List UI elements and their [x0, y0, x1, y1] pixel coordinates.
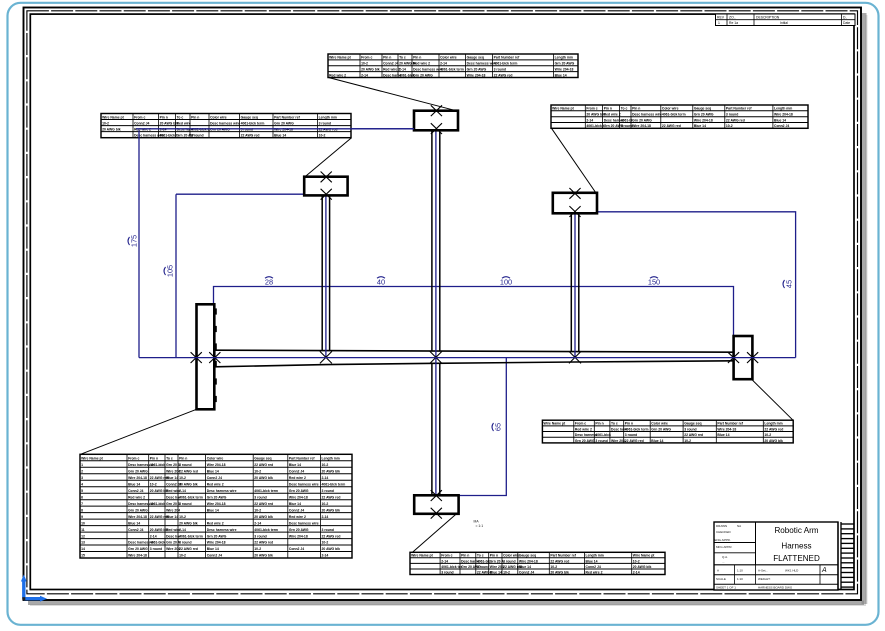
leader left table to C2: [305, 138, 352, 177]
svg-text:4061-blck t: 4061-blck t: [160, 134, 178, 138]
svg-text:WEIGHT:: WEIGHT:: [758, 577, 771, 581]
svg-text:Wire 204-18: Wire 204-18: [632, 124, 651, 128]
svg-text:3 round: 3 round: [595, 439, 607, 443]
svg-text:2-14: 2-14: [179, 489, 186, 493]
svg-text:Color wire: Color wire: [651, 422, 668, 426]
svg-text:Wire 204: Wire 204: [166, 547, 180, 551]
svg-text:22 AWG red: 22 AWG red: [662, 124, 681, 128]
svg-text:Part Number ref: Part Number ref: [289, 457, 315, 461]
svg-text:Wire Name pt: Wire Name pt: [411, 554, 434, 558]
svg-text:175: 175: [130, 235, 139, 247]
svg-text:4061-bl: 4061-bl: [621, 118, 633, 122]
svg-text:MA: MA: [474, 520, 480, 524]
svg-text:4061-blck: 4061-blck: [150, 463, 166, 467]
svg-text:...: ...: [722, 560, 725, 564]
svg-text:10: 10: [81, 521, 85, 525]
svg-text:Blue 14: Blue 14: [717, 433, 729, 437]
svg-text:Blue 14: Blue 14: [274, 134, 286, 138]
svg-text:Gauge seq: Gauge seq: [684, 422, 701, 426]
svg-text:3 round: 3 round: [179, 541, 191, 545]
svg-text:Red wire 2: Red wire 2: [413, 62, 430, 66]
svg-text:Color wire: Color wire: [503, 554, 520, 558]
svg-text:4061-blck term: 4061-blck term: [179, 534, 203, 538]
svg-text:1:10: 1:10: [737, 569, 743, 573]
svg-text:Desc harness wire: Desc harness wire: [467, 62, 497, 66]
svg-text:ZO..: ZO..: [729, 15, 736, 19]
dimension 175 leader over table: [136, 129, 414, 139]
svg-text:3 round: 3 round: [494, 68, 506, 72]
svg-text:Grn 20 AWG: Grn 20 AWG: [467, 68, 487, 72]
svg-text:= 1:1: = 1:1: [476, 524, 484, 528]
svg-text:Length mm: Length mm: [319, 115, 337, 119]
svg-text:10-2: 10-2: [633, 559, 640, 563]
svg-text:Red wire 2: Red wire 2: [289, 515, 306, 519]
svg-text:Pin n: Pin n: [461, 554, 469, 558]
svg-text:From c: From c: [575, 422, 586, 426]
svg-text:6: 6: [81, 495, 83, 499]
table wirelist bottom: [410, 552, 665, 574]
svg-text:22 AWG red: 22 AWG red: [254, 502, 273, 506]
svg-text:Blue 14: Blue 14: [207, 508, 219, 512]
svg-text:DESCRIPTION: DESCRIPTION: [756, 15, 780, 19]
svg-text:2-14: 2-14: [322, 515, 329, 519]
svg-text:Color wire: Color wire: [210, 115, 227, 119]
svg-text:Wire 204: Wire 204: [166, 508, 180, 512]
connector C1: [414, 105, 458, 134]
svg-text:4061-blck term: 4061-blck term: [322, 482, 346, 486]
svg-text:4061-blck term: 4061-blck term: [440, 68, 464, 72]
svg-text:Robotic Arm: Robotic Arm: [774, 526, 818, 535]
svg-text:Blue 14: Blue 14: [166, 476, 178, 480]
leader right connector to mid table: [752, 379, 794, 420]
svg-text:4061-blck term: 4061-blck term: [241, 121, 265, 125]
svg-text:Wire Name pt: Wire Name pt: [633, 554, 656, 558]
svg-text:1: 1: [718, 21, 720, 25]
svg-text:Wire Name pt: Wire Name pt: [81, 457, 104, 461]
svg-text:10-2: 10-2: [179, 515, 186, 519]
svg-text:Desc harness wire: Desc harness wire: [632, 113, 662, 117]
svg-text:To c: To c: [611, 422, 618, 426]
svg-text:3 round: 3 round: [625, 433, 637, 437]
svg-text:From c: From c: [586, 107, 597, 111]
svg-text:3 round: 3 round: [503, 559, 515, 563]
svg-text:10-2: 10-2: [319, 134, 326, 138]
svg-text:Blue 14: Blue 14: [490, 570, 502, 574]
svg-text:Conn2 J4: Conn2 J4: [383, 62, 398, 66]
svg-text:Gauge seq: Gauge seq: [254, 457, 271, 461]
svg-text:20 AWG blk: 20 AWG blk: [254, 554, 273, 558]
svg-text:Wire Name pt: Wire Name pt: [329, 56, 352, 60]
svg-text:Grn 20 AWG: Grn 20 AWG: [207, 534, 227, 538]
svg-text:Wire Name pt: Wire Name pt: [102, 115, 125, 119]
svg-text:From c: From c: [134, 115, 145, 119]
svg-text:10-2: 10-2: [684, 439, 691, 443]
leader left connector to big table: [81, 409, 197, 454]
junction J3: [569, 351, 581, 363]
dimension 45 vertical: [597, 212, 796, 358]
svg-text:Part Number ref: Part Number ref: [717, 422, 743, 426]
svg-text:3 round: 3 round: [477, 565, 489, 569]
revision strip ladder: [838, 522, 854, 590]
svg-text:2-14: 2-14: [179, 528, 186, 532]
svg-text:To c: To c: [177, 115, 184, 119]
svg-text:22 AWG red: 22 AWG red: [179, 547, 198, 551]
svg-text:20 AWG blk: 20 AWG blk: [550, 570, 569, 574]
svg-text:Blue 14: Blue 14: [289, 463, 301, 467]
svg-text:3 round: 3 round: [254, 495, 266, 499]
svg-text:4061-blck term: 4061-blck term: [179, 495, 203, 499]
svg-text:10-2: 10-2: [322, 463, 329, 467]
svg-text:2-14: 2-14: [586, 118, 593, 122]
svg-text:20 AWG blk: 20 AWG blk: [254, 515, 273, 519]
svg-text:Wire 204-18: Wire 204-18: [717, 427, 736, 431]
svg-text:2-14: 2-14: [322, 554, 329, 558]
svg-text:4061-blck: 4061-blck: [150, 502, 166, 506]
svg-text:Part Number ref: Part Number ref: [494, 56, 520, 60]
svg-text:10-2: 10-2: [503, 570, 510, 574]
svg-text:Wire Name pt: Wire Name pt: [552, 107, 575, 111]
svg-text:Wire 204-18: Wire 204-18: [128, 476, 147, 480]
svg-text:SHEET 1 OF 1: SHEET 1 OF 1: [716, 586, 736, 590]
svg-text:Blue 14: Blue 14: [774, 118, 786, 122]
svg-text:Conn2 J4: Conn2 J4: [134, 121, 149, 125]
svg-text:WK1 HLD: WK1 HLD: [785, 569, 799, 573]
svg-text:9: 9: [81, 515, 83, 519]
table wirelist left: [101, 114, 351, 138]
svg-text:A-Set...: A-Set...: [758, 569, 768, 573]
svg-text:12: 12: [81, 534, 85, 538]
wire branch C1 through trunk to C4: [432, 131, 440, 496]
svg-text:Length mm: Length mm: [586, 554, 604, 558]
svg-text:Harness: Harness: [781, 542, 811, 551]
svg-text:100: 100: [500, 278, 512, 287]
svg-text:Conn2 J4: Conn2 J4: [289, 547, 304, 551]
title block: [714, 522, 838, 590]
svg-text:Wire 204-18: Wire 204-18: [694, 118, 713, 122]
svg-text:22 AWG red: 22 AWG red: [254, 463, 273, 467]
svg-text:Wire 204-18: Wire 204-18: [467, 73, 486, 77]
origin axis triad: [21, 575, 47, 602]
table wirelist midright: [542, 420, 793, 443]
svg-text:10-2: 10-2: [254, 547, 261, 551]
svg-text:Grn 20 AWG: Grn 20 AWG: [289, 489, 309, 493]
svg-text:Re 1a: Re 1a: [729, 21, 738, 25]
svg-text:10-2: 10-2: [254, 508, 261, 512]
svg-text:Conn2 J4: Conn2 J4: [128, 489, 143, 493]
svg-text:10-2: 10-2: [361, 62, 368, 66]
svg-text:4061-blck term: 4061-blck term: [254, 489, 278, 493]
wire trunk outline: [215, 350, 734, 367]
svg-text:Grn 20 AWG: Grn 20 AWG: [555, 62, 575, 66]
svg-text:3 round: 3 round: [319, 121, 331, 125]
svg-text:2-14: 2-14: [150, 534, 157, 538]
svg-text:Length mm: Length mm: [555, 56, 573, 60]
svg-text:Grn 20 AWG: Grn 20 AWG: [413, 73, 433, 77]
svg-text:20 AWG blk: 20 AWG blk: [586, 113, 605, 117]
svg-text:20 AWG blk: 20 AWG blk: [102, 127, 121, 131]
svg-text:2-14: 2-14: [254, 521, 261, 525]
svg-text:Wire 204: Wire 204: [490, 565, 504, 569]
svg-text:Wire 204-18: Wire 204-18: [207, 463, 226, 467]
svg-text:MFG APPR.: MFG APPR.: [716, 545, 733, 549]
svg-text:28: 28: [265, 278, 273, 287]
svg-text:Gauge seq: Gauge seq: [694, 107, 711, 111]
svg-text:Conn2 J4: Conn2 J4: [289, 508, 304, 512]
svg-text:3 round: 3 round: [322, 528, 334, 532]
svg-text:65: 65: [494, 423, 503, 431]
connector C3: [553, 188, 597, 217]
svg-text:45: 45: [785, 280, 794, 288]
svg-text:Red wire 2: Red wire 2: [604, 113, 621, 117]
svg-text:22 AWG red: 22 AWG red: [494, 73, 513, 77]
svg-text:NA: NA: [737, 524, 741, 528]
svg-text:3 round: 3 round: [179, 463, 191, 467]
svg-text:22 AWG red: 22 AWG red: [550, 559, 569, 563]
svg-text:Part Number ref: Part Number ref: [726, 107, 752, 111]
svg-text:Wire 204-: Wire 204-: [611, 439, 626, 443]
svg-text:Desc harness wire: Desc harness wire: [207, 528, 237, 532]
svg-text:Wire 204-18: Wire 204-18: [128, 515, 147, 519]
svg-text:Conn2 J4: Conn2 J4: [207, 476, 222, 480]
svg-text:22 AWG red: 22 AWG red: [322, 534, 341, 538]
svg-text:10-2: 10-2: [179, 476, 186, 480]
svg-text:Date: Date: [843, 21, 850, 25]
svg-text:10-2: 10-2: [550, 565, 557, 569]
svg-text:Blue 14: Blue 14: [555, 73, 567, 77]
svg-text:Wire 204-18: Wire 204-18: [774, 113, 793, 117]
svg-text:Wire 204-18: Wire 204-18: [519, 559, 538, 563]
svg-text:2-14: 2-14: [361, 73, 368, 77]
svg-text:20 AWG blk: 20 AWG blk: [322, 469, 341, 473]
dimension 175 vertical: [128, 129, 414, 358]
svg-text:4061-blck term: 4061-blck term: [254, 528, 278, 532]
svg-text:Blue 14: Blue 14: [207, 547, 219, 551]
svg-text:Red wire 2: Red wire 2: [383, 68, 400, 72]
svg-text:10-2: 10-2: [726, 124, 733, 128]
svg-text:5: 5: [81, 489, 83, 493]
svg-text:Part Number ref: Part Number ref: [274, 115, 300, 119]
svg-text:3 round: 3 round: [254, 534, 266, 538]
svg-text:1: 1: [81, 463, 83, 467]
svg-text:Part Number ref: Part Number ref: [550, 554, 576, 558]
svg-text:Blue 14: Blue 14: [289, 502, 301, 506]
table wirelist right: [551, 105, 808, 128]
svg-text:Grn 20 AWG: Grn 20 AWG: [632, 118, 652, 122]
svg-text:4061-blck term: 4061-blck term: [625, 427, 649, 431]
svg-text:Blue 14: Blue 14: [586, 559, 598, 563]
svg-text:Red wire 2: Red wire 2: [128, 495, 145, 499]
note MA: [474, 520, 484, 529]
svg-text:Wire 204-18: Wire 204-18: [128, 554, 147, 558]
svg-text:Red wire 2: Red wire 2: [586, 570, 603, 574]
svg-text:HARNESS BOARD DWG: HARNESS BOARD DWG: [758, 586, 793, 590]
svg-text:Gauge seq: Gauge seq: [519, 554, 536, 558]
svg-text:4061-blck t: 4061-blck t: [586, 124, 604, 128]
svg-text:3 round: 3 round: [322, 489, 334, 493]
svg-text:Gauge seq: Gauge seq: [241, 115, 258, 119]
svg-text:10-2: 10-2: [254, 469, 261, 473]
svg-text:3: 3: [81, 476, 83, 480]
svg-text:3 round: 3 round: [684, 427, 696, 431]
svg-text:40: 40: [377, 278, 385, 287]
svg-text:2-14: 2-14: [399, 68, 406, 72]
svg-text:4061-blc: 4061-blc: [477, 559, 491, 563]
svg-text:Desc harness: Desc harness: [575, 433, 597, 437]
connector P2: [728, 336, 758, 379]
wire branch C2 to trunk: [322, 196, 329, 358]
svg-text:Grn 20 AWG: Grn 20 AWG: [651, 427, 671, 431]
svg-text:Desc harness wire: Desc harness wire: [413, 68, 443, 72]
dimension chain 28/40/100/150: [214, 277, 734, 358]
revision table: [716, 14, 856, 26]
svg-text:Grn 20 AWG: Grn 20 AWG: [694, 113, 714, 117]
dimension 65 vertical: [459, 358, 507, 496]
svg-text:20 AWG blk: 20 AWG blk: [361, 68, 380, 72]
junction J1: [320, 351, 332, 363]
svg-text:Conn2 J4: Conn2 J4: [207, 554, 222, 558]
svg-text:Red wire 2: Red wire 2: [207, 482, 224, 486]
leader right table to C3: [552, 128, 597, 193]
svg-text:Length mm: Length mm: [322, 457, 340, 461]
svg-text:Grn 20 AWG: Grn 20 AWG: [128, 508, 148, 512]
svg-text:Grn 20 AWG: Grn 20 AWG: [128, 547, 148, 551]
svg-text:Pin n: Pin n: [150, 457, 158, 461]
svg-text:Desc harness wire: Desc harness wire: [207, 489, 237, 493]
svg-text:Red wire 2: Red wire 2: [329, 73, 346, 77]
svg-text:Blue 14: Blue 14: [128, 482, 140, 486]
leader bottom connector to bottom table: [413, 514, 457, 553]
svg-text:Conn2 J4: Conn2 J4: [586, 565, 601, 569]
svg-text:Grn 20 AWG: Grn 20 AWG: [575, 439, 595, 443]
table wirelist top: [328, 54, 578, 78]
svg-text:Pin n: Pin n: [160, 115, 168, 119]
svg-text:4061-blck: 4061-blck: [595, 433, 611, 437]
svg-text:10-2: 10-2: [102, 121, 109, 125]
svg-text:4061-blck term: 4061-blck term: [494, 62, 518, 66]
svg-text:Grn 20 AWG: Grn 20 AWG: [289, 528, 309, 532]
svg-text:To c: To c: [621, 107, 628, 111]
svg-text:Conn2 J4: Conn2 J4: [519, 570, 534, 574]
table big connector P1: [80, 454, 352, 558]
svg-text:Color wire: Color wire: [662, 107, 679, 111]
svg-text:2: 2: [81, 469, 83, 473]
svg-text:Wire 204-18: Wire 204-18: [207, 502, 226, 506]
svg-text:Pin n: Pin n: [179, 457, 187, 461]
svg-text:22 AWG red: 22 AWG red: [254, 541, 273, 545]
svg-text:Wire 204-18: Wire 204-18: [555, 68, 574, 72]
svg-text:10-2: 10-2: [179, 554, 186, 558]
connector C2: [304, 172, 347, 200]
svg-text:22 AWG red: 22 AWG red: [241, 134, 260, 138]
svg-text:Desc harness wire: Desc harness wire: [289, 482, 319, 486]
svg-text:Wire 204: Wire 204: [166, 469, 180, 473]
svg-text:8: 8: [81, 508, 83, 512]
svg-text:3 round: 3 round: [150, 547, 162, 551]
svg-text:10-2: 10-2: [764, 433, 771, 437]
svg-text:4: 4: [81, 482, 83, 486]
svg-text:22 AWG red: 22 AWG red: [764, 427, 783, 431]
svg-text:3 round: 3 round: [179, 502, 191, 506]
svg-text:Wire Name pt: Wire Name pt: [544, 422, 567, 426]
svg-text:2-14: 2-14: [322, 476, 329, 480]
svg-text:Red wire 2: Red wire 2: [575, 427, 592, 431]
svg-text:Conn2 J4: Conn2 J4: [289, 469, 304, 473]
svg-text:20 AWG blk: 20 AWG blk: [160, 121, 179, 125]
svg-text:SCALE: SCALE: [716, 577, 726, 581]
svg-text:15: 15: [81, 554, 85, 558]
wire branch C3 to trunk: [571, 214, 579, 358]
svg-text:Grn 20 AWG: Grn 20 AWG: [128, 469, 148, 473]
svg-text:D..: D..: [843, 15, 847, 19]
svg-text:22 AWG red: 22 AWG red: [179, 469, 198, 473]
svg-text:22 AWG red: 22 AWG red: [625, 439, 644, 443]
svg-text:Red wire 2: Red wire 2: [289, 476, 306, 480]
svg-text:To c: To c: [399, 56, 406, 60]
svg-text:Desc harness wire: Desc harness wire: [289, 521, 319, 525]
svg-text:Pin n: Pin n: [383, 56, 391, 60]
svg-text:Length mm: Length mm: [764, 422, 782, 426]
leader top table to C1: [329, 78, 457, 111]
svg-text:From c: From c: [441, 554, 452, 558]
svg-text:4061-blck: 4061-blck: [150, 541, 166, 545]
svg-text:10-2: 10-2: [322, 502, 329, 506]
svg-text:ENG APPR.: ENG APPR.: [715, 538, 731, 542]
net trunk centreline: [139, 357, 796, 359]
svg-text:Blue 14: Blue 14: [519, 565, 531, 569]
svg-text:Desc harness wire: Desc harness wire: [210, 121, 240, 125]
svg-text:Blue 14: Blue 14: [128, 521, 140, 525]
svg-text:3 round: 3 round: [441, 570, 453, 574]
svg-text:To c: To c: [477, 554, 484, 558]
svg-text:Wire 204-18: Wire 204-18: [289, 495, 308, 499]
svg-text:Grn 20 AWG: Grn 20 AWG: [274, 121, 294, 125]
svg-text:20 AWG blk: 20 AWG blk: [322, 547, 341, 551]
svg-text:20 AWG blk: 20 AWG blk: [322, 508, 341, 512]
svg-text:14: 14: [81, 547, 85, 551]
svg-text:Pin n: Pin n: [632, 107, 640, 111]
svg-text:150: 150: [648, 278, 660, 287]
svg-text:Pin n: Pin n: [604, 107, 612, 111]
svg-text:22 AWG red: 22 AWG red: [322, 495, 341, 499]
svg-text:Pin n: Pin n: [490, 554, 498, 558]
svg-text:Blue 14: Blue 14: [207, 469, 219, 473]
svg-text:11: 11: [81, 528, 85, 532]
dimension 105 vertical: [164, 194, 304, 357]
svg-text:105: 105: [166, 265, 175, 277]
svg-text:20 AWG blk: 20 AWG blk: [254, 476, 273, 480]
svg-text:Pin n: Pin n: [191, 115, 199, 119]
svg-text:From c: From c: [361, 56, 372, 60]
svg-text:20 AWG blk: 20 AWG blk: [633, 565, 652, 569]
svg-text:Color wire: Color wire: [440, 56, 457, 60]
svg-text:Blue 14: Blue 14: [651, 439, 663, 443]
svg-text:20 AWG blk: 20 AWG blk: [179, 482, 198, 486]
svg-text:Conn2 J4: Conn2 J4: [774, 124, 789, 128]
svg-text:4061-blck ter: 4061-blck ter: [441, 565, 462, 569]
svg-text:7: 7: [81, 502, 83, 506]
svg-text:10-2: 10-2: [150, 482, 157, 486]
svg-text:Pin n: Pin n: [595, 422, 603, 426]
svg-text:FLATTENED: FLATTENED: [773, 554, 820, 563]
svg-text:Length mm: Length mm: [774, 107, 792, 111]
svg-text:Grn 20 AWG: Grn 20 AWG: [207, 495, 227, 499]
svg-text:To c: To c: [166, 457, 173, 461]
svg-text:22 AWG red: 22 AWG red: [726, 118, 745, 122]
svg-text:DRAWN: DRAWN: [716, 524, 727, 528]
svg-text:4061-blck term: 4061-blck term: [662, 113, 686, 117]
connector P1: [191, 304, 221, 409]
svg-text:A: A: [821, 567, 827, 574]
